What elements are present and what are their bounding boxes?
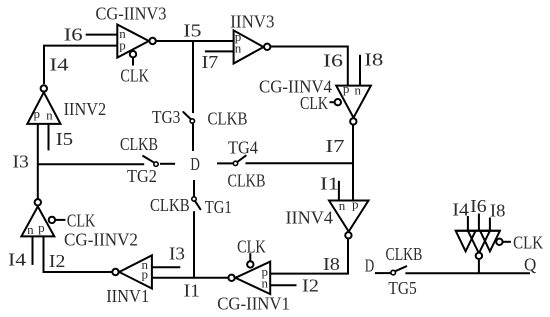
svg-text:I6: I6 bbox=[470, 197, 486, 217]
CG-IINV4 CLK stub bbox=[330, 101, 335, 103]
CG-IINV1 CLK stub bbox=[249, 253, 251, 261]
buffer CLK stub bbox=[503, 241, 511, 243]
TG4 contact dot bbox=[233, 161, 237, 165]
svg-text:Q: Q bbox=[524, 255, 537, 274]
wire I8 stub into CG-IINV4 bbox=[359, 55, 361, 86]
CG-IINV3 output bubble bbox=[149, 38, 155, 44]
CG-IINV2 CLK stub bbox=[55, 219, 65, 221]
wire node I7: CG-IINV4 output down to IINV4 input bbox=[352, 125, 354, 201]
transmission gate TG5 lever bbox=[395, 266, 406, 271]
wire node I5: CG-IINV3 output to IINV3 input bbox=[156, 40, 234, 42]
svg-text:p: p bbox=[34, 106, 41, 121]
svg-text:CLKB: CLKB bbox=[386, 246, 423, 265]
svg-text:CLKB: CLKB bbox=[208, 108, 248, 128]
wire I5 stub of IINV2 bbox=[48, 124, 50, 150]
wire I7 input to IINV3 bbox=[205, 50, 234, 52]
output buffer top rail bbox=[456, 230, 500, 232]
svg-text:I5: I5 bbox=[56, 130, 73, 149]
svg-text:I3: I3 bbox=[13, 152, 29, 172]
svg-text:CLKB: CLKB bbox=[120, 136, 158, 155]
wire from TG4 to right vertical I7 net bbox=[246, 162, 354, 164]
svg-text:I1: I1 bbox=[184, 282, 200, 302]
wire D-node vertical lower segment to I1 line bbox=[193, 211, 195, 278]
svg-text:IINV4: IINV4 bbox=[286, 208, 334, 228]
buffer input stub I6 bbox=[478, 214, 480, 231]
svg-text:n: n bbox=[261, 276, 268, 291]
inverter IINV1 output bubble bbox=[112, 269, 118, 275]
wire node I6: IINV3 output to CG-IINV4 input bbox=[270, 47, 347, 86]
inverter IINV2 output bubble bbox=[41, 85, 47, 91]
IINV3 output bubble bbox=[264, 44, 270, 50]
svg-text:I4: I4 bbox=[452, 200, 469, 220]
svg-text:I6: I6 bbox=[323, 51, 343, 71]
wire I3 stub of IINV1 bbox=[152, 266, 180, 268]
wire D-node vertical below D label bbox=[193, 180, 195, 197]
svg-text:D: D bbox=[190, 155, 199, 174]
svg-text:TG5: TG5 bbox=[388, 278, 416, 298]
svg-text:TG3: TG3 bbox=[152, 107, 180, 127]
svg-text:I8: I8 bbox=[323, 255, 340, 274]
buffer clock bubble bbox=[496, 239, 502, 245]
CG-IINV2 clock bubble bbox=[49, 217, 55, 223]
svg-text:CG-IINV1: CG-IINV1 bbox=[217, 294, 290, 313]
wire IINV2 left input down to CG-IINV2 output bbox=[37, 124, 39, 199]
svg-text:CLKB: CLKB bbox=[150, 196, 190, 215]
svg-text:I1: I1 bbox=[320, 175, 339, 194]
wire D-node vertical upper segment bbox=[192, 41, 194, 113]
svg-text:I7: I7 bbox=[326, 137, 345, 156]
svg-text:CLK: CLK bbox=[120, 67, 149, 86]
svg-text:n: n bbox=[339, 198, 346, 213]
clocked inverter CG-IINV3 triangle bbox=[117, 25, 149, 58]
clocked inverter CG-IINV1 triangle (points left) bbox=[235, 262, 270, 295]
svg-text:I4: I4 bbox=[8, 250, 26, 270]
clocked inverter CG-IINV4 triangle bbox=[336, 86, 371, 118]
svg-text:I8: I8 bbox=[364, 51, 383, 70]
svg-text:CLKB: CLKB bbox=[228, 172, 266, 191]
buffer left inverter triangle bbox=[456, 231, 476, 252]
IINV4 output bubble bbox=[345, 232, 351, 238]
svg-text:TG4: TG4 bbox=[228, 138, 259, 158]
svg-text:p: p bbox=[38, 220, 45, 235]
buffer middle inverter triangle bbox=[468, 231, 490, 254]
svg-text:I3: I3 bbox=[169, 244, 185, 263]
svg-text:CG-IINV3: CG-IINV3 bbox=[96, 4, 167, 24]
transmission gate TG2 lever bbox=[143, 156, 154, 163]
CG-IINV3 CLK stub bbox=[132, 58, 134, 66]
wire Q rail from TG5 to Q bbox=[405, 272, 530, 274]
inverter IINV4 triangle (points down) bbox=[329, 201, 369, 232]
wire D input left contact (TG5) bbox=[375, 272, 391, 274]
buffer right inverter triangle bbox=[480, 231, 500, 252]
clocked inverter CG-IINV2 triangle (points up) bbox=[21, 207, 54, 237]
svg-text:n: n bbox=[354, 83, 361, 98]
svg-text:CLK: CLK bbox=[237, 238, 266, 257]
svg-text:CG-IINV2: CG-IINV2 bbox=[64, 230, 138, 249]
wire I4 stub of CG-IINV2 bbox=[32, 236, 34, 265]
svg-text:I4: I4 bbox=[50, 56, 69, 75]
buffer input stub I4 bbox=[467, 216, 469, 231]
TG2 right contact segment bbox=[160, 163, 175, 165]
CG-IINV3 clock bubble bbox=[130, 51, 136, 57]
TG5 contact dot bbox=[391, 270, 396, 275]
wire I3 from IINV2 input node to TG2 bbox=[38, 163, 144, 165]
transmission gate TG4 lever bbox=[237, 156, 245, 162]
svg-text:n: n bbox=[27, 222, 34, 237]
buffer input stub I8 bbox=[489, 218, 491, 231]
CG-IINV4 output bubble bbox=[350, 118, 356, 124]
inverter IINV3 triangle bbox=[234, 30, 264, 63]
svg-text:TG1: TG1 bbox=[205, 199, 232, 217]
wire I2 stub of CG-IINV1 bbox=[270, 284, 296, 286]
clocked inverter CG-IINV1 output bubble bbox=[228, 275, 234, 281]
CG-IINV4 clock bubble bbox=[335, 99, 341, 105]
inverter IINV2 triangle (points up) bbox=[27, 92, 60, 124]
svg-text:CLK: CLK bbox=[67, 212, 96, 231]
TG4 left contact segment from D node bbox=[217, 162, 233, 164]
CG-IINV1 clock bubble bbox=[247, 261, 253, 267]
wire I2 net: CG-IINV2 right input to IINV1 output bbox=[44, 236, 113, 272]
transmission gate TG3 lever bbox=[183, 112, 191, 120]
svg-text:p: p bbox=[343, 81, 350, 96]
wire I1 stub into IINV4 bbox=[338, 181, 340, 201]
svg-text:CLK: CLK bbox=[513, 233, 543, 252]
wire I4 net: left vertical from IINV2 up and into CG-IINV3 lower input bbox=[44, 46, 117, 84]
wire I6 input to CG-IINV3 bbox=[86, 34, 118, 36]
svg-text:TG2: TG2 bbox=[127, 167, 157, 187]
svg-text:p: p bbox=[119, 38, 126, 53]
clocked inverter CG-IINV2 output bubble bbox=[35, 199, 41, 205]
svg-text:CLK: CLK bbox=[300, 95, 328, 114]
svg-text:p: p bbox=[352, 196, 359, 211]
wire D-node vertical below TG3 bbox=[192, 124, 194, 151]
wire I8 net: CG-IINV1 upper input right and up to IINV4 output bbox=[270, 238, 348, 273]
transmission gate TG1 lever bbox=[195, 201, 200, 209]
wire buffer output down to Q rail bbox=[478, 260, 480, 273]
TG2 contact dot bbox=[154, 162, 158, 166]
svg-text:p: p bbox=[141, 267, 148, 282]
svg-text:I2: I2 bbox=[302, 277, 319, 296]
svg-text:IINV1: IINV1 bbox=[106, 287, 149, 307]
svg-text:n: n bbox=[46, 107, 53, 122]
svg-text:I2: I2 bbox=[49, 252, 65, 272]
svg-text:I8: I8 bbox=[490, 201, 506, 220]
svg-text:I5: I5 bbox=[183, 22, 201, 41]
svg-text:IINV2: IINV2 bbox=[64, 99, 107, 119]
svg-text:I7: I7 bbox=[202, 53, 219, 73]
wire I1 net: IINV1 lower input to CG-IINV1 output bbox=[152, 277, 228, 279]
svg-text:n: n bbox=[235, 41, 242, 56]
svg-text:I6: I6 bbox=[64, 26, 83, 45]
TG3 contact dot bbox=[190, 119, 194, 123]
TG1 contact dot bbox=[192, 197, 196, 201]
buffer output bubble bbox=[476, 253, 482, 259]
svg-text:D: D bbox=[365, 257, 374, 276]
inverter IINV1 triangle (points left) bbox=[119, 255, 152, 288]
